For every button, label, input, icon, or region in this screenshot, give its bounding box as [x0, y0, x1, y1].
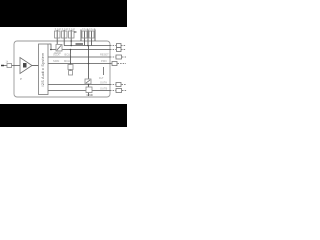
- vertical net wire x=88.5: [88, 46, 90, 80]
- svg-text:OUTB: OUTB: [100, 86, 107, 90]
- wire SDIN y=63.5: [48, 63, 110, 65]
- top letterbox band: [0, 0, 127, 27]
- wire OUTB y=90.5: [48, 90, 110, 92]
- pin ext y=49.5: [110, 49, 126, 51]
- wire SCLK y=57: [48, 56, 110, 58]
- svg-text:SCLK: SCLK: [53, 53, 60, 57]
- svg-text:FLT: FLT: [99, 76, 104, 80]
- cap C3 box: [69, 31, 75, 38]
- svg-text:RESET: RESET: [100, 53, 109, 57]
- cap C2 box: [62, 31, 68, 38]
- wire amp output to core: [32, 65, 39, 67]
- svg-text:0.1uF: 0.1uF: [89, 28, 96, 31]
- cap rail wires right group: [81, 30, 95, 46]
- net labels left: [53, 53, 72, 64]
- svg-text:P: P: [20, 77, 22, 81]
- vertical wire to oscillator: [70, 50, 72, 71]
- wire input: [4, 65, 20, 67]
- filter inductor box: [85, 79, 91, 84]
- background: [0, 0, 127, 127]
- supply wires into block: [57, 41, 71, 46]
- pin ext y=84.5: [110, 84, 126, 86]
- wire through filter: [88, 85, 90, 97]
- oscillator box: [68, 65, 73, 70]
- input terminal stub: [1, 65, 4, 67]
- pin ext y=63.5: [110, 63, 126, 65]
- cap C1 box: [55, 31, 61, 38]
- pin ext y=90.5: [110, 90, 127, 92]
- bus wire y=49.5: [50, 49, 110, 51]
- main block outline: [14, 41, 110, 97]
- resistor input: [7, 64, 12, 68]
- svg-text:0.1uF: 0.1uF: [62, 28, 69, 31]
- bottom letterbox band: [0, 104, 127, 127]
- pin ext y=57: [110, 56, 126, 58]
- junction dots: [50, 40, 89, 85]
- regulator box with slash: [56, 45, 62, 52]
- pin externals: [110, 44, 127, 93]
- pin labels right: [99, 53, 109, 91]
- cap under oscillator: [69, 71, 73, 76]
- op-amp triangle: [20, 58, 32, 74]
- svg-text:0.1uF: 0.1uF: [69, 28, 76, 31]
- VCC tick between cap groups: [74, 31, 77, 33]
- svg-text:GND: GND: [87, 93, 93, 97]
- svg-text:OUTA: OUTA: [100, 80, 107, 84]
- svg-text:BCLK: BCLK: [65, 53, 72, 57]
- cap value labels: [55, 28, 96, 31]
- filter cap box: [86, 87, 92, 93]
- svg-text:MCLK: MCLK: [64, 59, 71, 63]
- svg-text:0.1uF: 0.1uF: [82, 28, 89, 31]
- cap rail wires left group (centers): [57, 30, 71, 41]
- cap C5 box: [89, 31, 94, 38]
- svg-text:I2S Audio System: I2S Audio System: [41, 53, 45, 87]
- bus wire y=45.5: [64, 45, 110, 47]
- wire chip top to bus: [49, 44, 52, 50]
- svg-text:0.1uF: 0.1uF: [55, 28, 62, 31]
- VDD dash label inside box: [76, 43, 84, 45]
- svg-text:SDIN: SDIN: [53, 59, 59, 63]
- core block: [39, 44, 49, 95]
- short wire stub: [103, 67, 105, 75]
- wire OUTA y=84.5: [48, 84, 110, 86]
- amp internal glyph: [23, 63, 27, 68]
- pin ext y=45.5: [110, 45, 126, 47]
- cap C4 box: [82, 31, 87, 38]
- svg-text:PDN: PDN: [101, 59, 107, 63]
